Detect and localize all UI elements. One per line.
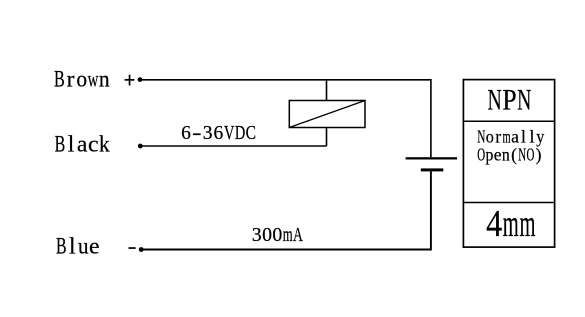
svg-text:o: o (486, 127, 494, 147)
svg-text:o: o (76, 66, 87, 92)
svg-text:V: V (224, 122, 235, 144)
svg-text:C: C (246, 121, 256, 143)
svg-text:p: p (485, 144, 493, 164)
svg-text:(: ( (511, 144, 517, 164)
svg-text:O: O (477, 146, 485, 165)
svg-text:A: A (293, 224, 303, 246)
svg-text:N: N (518, 146, 526, 165)
wire: Blue line to supply - (right vertical up to battery) (141, 171, 431, 249)
wire: branch from Brown wire down to relay coil (326, 80, 328, 101)
label Open(NO) (477, 144, 541, 165)
svg-text:m: m (283, 223, 293, 246)
svg-text:0: 0 (272, 224, 282, 246)
svg-text:0: 0 (262, 224, 272, 246)
svg-text:n: n (502, 144, 510, 164)
junction dot: Blue wire start (139, 247, 144, 252)
sensor box divider 2 (463, 202, 554, 204)
svg-text:w: w (88, 66, 99, 92)
svg-text:n: n (99, 66, 110, 92)
wire: Black line to load branch (140, 145, 326, 147)
svg-text:k: k (99, 131, 110, 157)
battery BT1 positive plate (long) (406, 157, 457, 159)
svg-text:u: u (78, 233, 89, 259)
label Normally (477, 126, 545, 147)
svg-text:a: a (77, 132, 88, 158)
wire: Brown line to supply + (right vertical down to battery) (140, 80, 431, 157)
label NPN (488, 83, 532, 116)
label 4mm (486, 202, 535, 244)
svg-text:l: l (68, 132, 75, 158)
value label 6-36VDC (181, 121, 256, 144)
label Black (55, 131, 111, 158)
svg-text:r: r (495, 126, 501, 146)
plus sign (+) on Brown lead (125, 75, 135, 86)
relay coil diagonal stroke (289, 101, 365, 128)
svg-text:6: 6 (214, 123, 224, 144)
svg-text:B: B (55, 132, 66, 158)
svg-text:): ) (536, 144, 542, 164)
svg-text:e: e (494, 144, 502, 164)
svg-text:l: l (521, 126, 526, 146)
svg-text:m: m (519, 202, 535, 244)
svg-text:-: - (192, 122, 202, 144)
value label 300mA (252, 223, 304, 246)
battery BT1 negative plate (short, thick) (421, 168, 444, 171)
svg-text:B: B (54, 67, 65, 93)
svg-text:P: P (502, 84, 516, 117)
svg-text:r: r (67, 67, 75, 93)
svg-text:3: 3 (203, 123, 213, 144)
svg-text:B: B (56, 234, 67, 260)
svg-text:a: a (511, 126, 519, 146)
label Brown (54, 66, 110, 93)
svg-text:l: l (529, 126, 534, 146)
junction dot: Brown wire start (138, 77, 143, 82)
relay coil / load (box) (289, 101, 365, 128)
svg-text:D: D (235, 122, 245, 144)
svg-text:m: m (503, 202, 519, 244)
sensor body box (NPN proximity switch) (463, 80, 554, 248)
svg-text:N: N (477, 128, 485, 147)
wire: relay coil bottom to Black wire (326, 128, 328, 147)
label Blue (56, 233, 100, 260)
svg-text:3: 3 (252, 224, 262, 246)
svg-text:e: e (89, 234, 100, 260)
minus sign (-) on Blue lead (129, 247, 136, 249)
svg-text:N: N (517, 83, 531, 116)
junction dot: Black wire start (138, 144, 143, 149)
svg-text:N: N (488, 83, 502, 116)
svg-text:c: c (88, 132, 99, 158)
svg-text:O: O (526, 146, 534, 165)
svg-text:4: 4 (486, 202, 502, 244)
sensor box divider 1 (463, 120, 554, 122)
svg-text:l: l (69, 234, 76, 260)
svg-text:6: 6 (181, 123, 191, 144)
